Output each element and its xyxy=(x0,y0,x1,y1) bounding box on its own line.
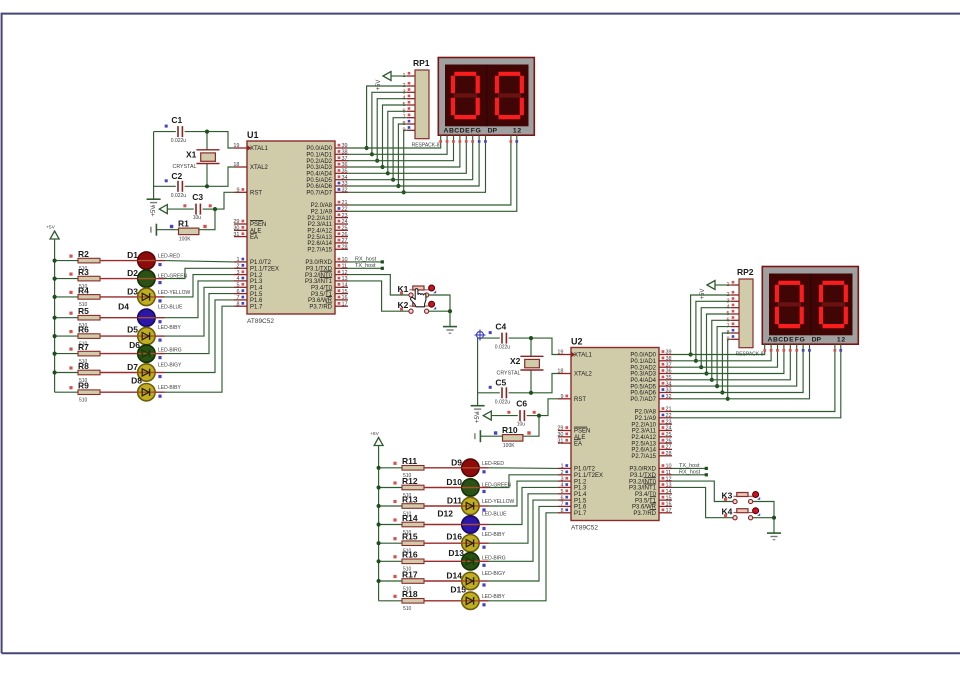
svg-text:P2.2/A10: P2.2/A10 xyxy=(307,216,332,222)
svg-text:D10: D10 xyxy=(446,477,462,487)
wire R13 to D11 xyxy=(424,505,462,507)
svg-text:P0.7/AD7: P0.7/AD7 xyxy=(630,397,656,403)
wire R7 to D6 xyxy=(100,353,138,355)
op-amp U1 AT89C52 xyxy=(247,141,335,314)
svg-text:K2: K2 xyxy=(398,300,409,310)
wire 7SEG1 segment DP to P0.7 xyxy=(348,135,486,192)
svg-text:D1: D1 xyxy=(127,250,138,260)
svg-text:A: A xyxy=(444,127,449,134)
svg-text:10: 10 xyxy=(666,464,672,470)
wire 7SEG2 segment DP to P0.7 xyxy=(672,344,810,399)
wire 7SEG2 segment G to P0.6 xyxy=(672,344,803,392)
wire RP1 pin7 to P0.5 xyxy=(393,118,407,180)
wire U2 XTAL top rail xyxy=(478,337,500,339)
svg-text:F: F xyxy=(795,336,799,343)
svg-text:U2: U2 xyxy=(571,337,583,347)
svg-text:D13: D13 xyxy=(448,548,464,558)
svg-text:D8: D8 xyxy=(131,376,142,386)
wire rail to R3 xyxy=(55,278,78,280)
svg-text:3: 3 xyxy=(560,476,563,482)
wire P3.0 net TX_host xyxy=(672,467,706,469)
wire D15 to P1.7 xyxy=(479,600,488,602)
svg-text:LED-BLUE: LED-BLUE xyxy=(482,512,507,518)
resistor R17 xyxy=(402,579,424,584)
resistor R16 xyxy=(402,559,424,564)
svg-text:P1.6: P1.6 xyxy=(574,505,587,511)
pin 24 U2 P2.3/A11 xyxy=(659,430,672,432)
svg-text:P3.0/RXD: P3.0/RXD xyxy=(629,467,656,473)
svg-text:XTAL1: XTAL1 xyxy=(574,353,593,359)
pin 14 U2 P3.4/T0 xyxy=(659,493,672,495)
wire D16 to P1.4 xyxy=(479,542,488,544)
svg-text:34: 34 xyxy=(342,175,348,181)
wire D10 to P1.1 xyxy=(479,487,488,489)
wire RP1 pin3 to P0.1 xyxy=(372,92,407,154)
svg-text:1: 1 xyxy=(837,336,841,343)
svg-text:P1.3: P1.3 xyxy=(574,486,587,492)
resistor pack RP2 RESPACK-8 xyxy=(739,279,753,348)
pin 11 U1 P3.1/TXD xyxy=(335,267,348,269)
pin 1 U1 P1.0/T2 xyxy=(234,261,247,263)
op-amp U2 AT89C52 xyxy=(571,348,659,521)
svg-text:D14: D14 xyxy=(446,571,462,581)
svg-text:P2.3/A11: P2.3/A11 xyxy=(308,222,333,228)
pin 6 RP2 xyxy=(731,319,739,321)
wire K3 K4 to ground xyxy=(753,502,774,534)
ground xyxy=(471,405,485,407)
svg-text:P0.0/AD0: P0.0/AD0 xyxy=(630,353,656,359)
pin 4 RP1 xyxy=(407,98,415,100)
svg-text:100K: 100K xyxy=(179,236,191,242)
pin 1 RP1 xyxy=(407,75,415,77)
svg-text:P1.5: P1.5 xyxy=(574,498,587,504)
pin 29 U1 PSEN xyxy=(234,223,247,225)
pin 1 RP2 xyxy=(731,284,739,286)
wire 7SEG2 segment B to P0.1 xyxy=(672,344,771,361)
svg-text:R7: R7 xyxy=(78,342,89,352)
svg-text:R3: R3 xyxy=(78,267,89,277)
wire rail to R11 xyxy=(379,467,402,469)
svg-text:R10: R10 xyxy=(502,425,518,435)
resistor R9 xyxy=(78,390,100,395)
pin 27 U2 P2.6/A14 xyxy=(659,448,672,450)
svg-text:P0.7/AD7: P0.7/AD7 xyxy=(306,191,332,197)
svg-text:18: 18 xyxy=(557,369,563,375)
svg-text:510: 510 xyxy=(403,606,412,612)
svg-text:TX_host: TX_host xyxy=(679,463,700,469)
pin 35 U1 P0.4/AD4 xyxy=(335,172,348,174)
svg-text:D2: D2 xyxy=(127,268,138,278)
svg-text:P2.1/A9: P2.1/A9 xyxy=(635,416,657,422)
resistor R1 xyxy=(179,228,199,235)
LED D10 LED-GREEN xyxy=(462,479,479,496)
svg-text:P3.0/RXD: P3.0/RXD xyxy=(305,260,332,266)
pin 10 U2 P3.0/RXD xyxy=(659,467,672,469)
pin 4 U1 P1.3 xyxy=(234,280,247,282)
svg-text:28: 28 xyxy=(342,245,348,251)
svg-text:P2.3/A11: P2.3/A11 xyxy=(632,429,657,435)
svg-text:30: 30 xyxy=(233,226,239,232)
svg-text:23: 23 xyxy=(342,213,348,219)
wire RP2 pin3 to P0.1 xyxy=(696,301,731,361)
svg-text:A: A xyxy=(768,336,773,343)
LED D6 LED-BIRG xyxy=(138,345,155,362)
svg-text:R18: R18 xyxy=(402,589,418,599)
wire RP2 pin2 to P0.0 xyxy=(691,295,731,355)
svg-text:P1.5: P1.5 xyxy=(250,292,263,298)
svg-text:P1.2: P1.2 xyxy=(250,273,263,279)
pin 39 U1 P0.0/AD0 xyxy=(335,147,348,149)
svg-text:K4: K4 xyxy=(722,507,733,517)
wire D9 to P1.0 xyxy=(479,467,488,469)
svg-text:R11: R11 xyxy=(402,456,417,466)
wire RP2 pin6 to P0.4 xyxy=(712,320,731,380)
svg-text:38: 38 xyxy=(666,356,672,362)
svg-text:P0.5/AD5: P0.5/AD5 xyxy=(306,178,332,184)
wire rail to R17 xyxy=(379,580,402,582)
svg-text:LED-BIBY: LED-BIBY xyxy=(482,532,505,538)
wire RP1 pin8 to P0.6 xyxy=(398,124,406,186)
LED D14 LED-BIGY xyxy=(462,572,479,589)
svg-text:P1.4: P1.4 xyxy=(250,286,263,292)
svg-text:D3: D3 xyxy=(127,286,138,296)
svg-text:D5: D5 xyxy=(127,325,138,335)
svg-text:0.022u: 0.022u xyxy=(495,399,511,405)
svg-text:10u: 10u xyxy=(193,215,202,221)
pin 3 RP2 xyxy=(731,300,739,302)
pin 39 U2 P0.0/AD0 xyxy=(659,354,672,356)
pin 6 RP1 xyxy=(407,110,415,112)
svg-text:EA: EA xyxy=(574,441,582,447)
pin 28 U1 P2.7/A15 xyxy=(335,248,348,250)
wire D6 to P1.5 xyxy=(155,353,164,355)
wire 7SEG2 segment A to P0.0 xyxy=(672,344,765,354)
svg-text:P1.2: P1.2 xyxy=(574,479,587,485)
wire D1 to P1.0 xyxy=(155,260,164,262)
svg-text:P2.2/A10: P2.2/A10 xyxy=(631,422,656,428)
wire rail to R16 xyxy=(379,560,402,562)
LED D5 LED-BIBY xyxy=(138,327,155,344)
wire rail to R18 xyxy=(379,600,402,602)
svg-text:35: 35 xyxy=(342,169,348,175)
wire RST to R10 xyxy=(523,416,539,437)
svg-text:8: 8 xyxy=(236,301,239,307)
svg-text:10: 10 xyxy=(342,257,348,263)
svg-text:P0.1/AD1: P0.1/AD1 xyxy=(306,153,332,159)
wire U1 left rail to ground xyxy=(153,132,155,200)
svg-text:22: 22 xyxy=(666,413,672,419)
wire rail to R7 xyxy=(55,353,78,355)
svg-text:RST: RST xyxy=(250,191,262,197)
wire U1 XTAL top rail xyxy=(154,131,176,133)
svg-text:TX_host: TX_host xyxy=(355,263,376,269)
svg-text:10u: 10u xyxy=(517,422,526,428)
svg-text:21: 21 xyxy=(342,200,348,206)
wire P3.2 to K3 xyxy=(672,481,733,501)
power +5V xyxy=(383,72,391,81)
svg-text:P2.5/A13: P2.5/A13 xyxy=(631,441,656,447)
svg-text:D11: D11 xyxy=(447,496,462,506)
wire D2 to P1.1 xyxy=(155,278,164,280)
svg-text:2: 2 xyxy=(236,264,239,270)
wire U2 crystal branches xyxy=(530,338,532,356)
pin 23 U2 P2.2/A10 xyxy=(659,423,672,425)
wire R5 to D4 xyxy=(100,317,138,319)
pin 9 U1 RST xyxy=(234,191,247,193)
svg-text:P0.1/AD1: P0.1/AD1 xyxy=(630,359,656,365)
power +5V xyxy=(50,231,59,239)
svg-text:11: 11 xyxy=(666,470,672,476)
svg-text:5: 5 xyxy=(560,489,563,495)
LED D15 LED-BIBY xyxy=(462,592,479,609)
svg-text:36: 36 xyxy=(342,162,348,168)
svg-text:LED-YELLOW: LED-YELLOW xyxy=(158,290,191,296)
resistor R2 xyxy=(78,258,100,263)
svg-text:P3.7/RD: P3.7/RD xyxy=(633,511,656,517)
wire U1 crystal branches xyxy=(206,132,208,150)
svg-text:D16: D16 xyxy=(446,532,462,542)
svg-text:LED-BIRG: LED-BIRG xyxy=(482,555,506,561)
svg-text:B: B xyxy=(449,127,454,134)
svg-text:+5V: +5V xyxy=(376,80,382,91)
pin 21 U1 P2.0/A8 xyxy=(335,204,348,206)
pin 34 U1 P0.5/AD5 xyxy=(335,179,348,181)
svg-text:13: 13 xyxy=(342,276,348,282)
display 7SEG1 two digit seven segment xyxy=(438,58,534,136)
svg-text:3: 3 xyxy=(236,270,239,276)
svg-text:R9: R9 xyxy=(78,381,89,391)
wire 7SEG2 segment F to P0.5 xyxy=(672,344,797,386)
svg-text:33: 33 xyxy=(666,388,672,394)
pin 18 U1 XTAL2 xyxy=(234,166,247,168)
wire R14 to D12 xyxy=(424,524,462,526)
svg-text:D4: D4 xyxy=(118,302,129,312)
node origin marker xyxy=(475,330,486,341)
svg-text:K1: K1 xyxy=(398,284,409,294)
svg-text:R14: R14 xyxy=(402,513,418,523)
pin 2 RP2 xyxy=(731,294,739,296)
wire C to RST xyxy=(203,208,215,210)
pin 29 U2 PSEN xyxy=(558,430,571,432)
svg-text:P3.3/INT1: P3.3/INT1 xyxy=(305,279,333,285)
svg-text:+5V: +5V xyxy=(700,289,706,300)
svg-text:C1: C1 xyxy=(171,115,182,125)
svg-text:R12: R12 xyxy=(402,476,418,486)
svg-text:C: C xyxy=(454,127,459,134)
wire D3 to P1.2 xyxy=(155,296,164,298)
svg-text:23: 23 xyxy=(666,419,672,425)
svg-text:19: 19 xyxy=(557,350,563,356)
svg-text:19: 19 xyxy=(233,143,239,149)
capacitor C1 xyxy=(177,126,179,137)
resistor R8 xyxy=(78,370,100,375)
ground xyxy=(443,326,457,328)
pin 28 U2 P2.7/A15 xyxy=(659,455,672,457)
svg-text:24: 24 xyxy=(666,426,672,432)
svg-text:510: 510 xyxy=(79,398,88,404)
svg-text:LED-BIBY: LED-BIBY xyxy=(158,385,181,391)
wire R1 to ground xyxy=(157,229,179,231)
pin 34 U2 P0.5/AD5 xyxy=(659,385,672,387)
capacitor C3 xyxy=(195,204,197,215)
svg-text:P1.3: P1.3 xyxy=(250,279,263,285)
pin 26 U2 P2.5/A13 xyxy=(659,442,672,444)
svg-text:P1.6: P1.6 xyxy=(250,298,263,304)
svg-text:X1: X1 xyxy=(186,150,197,160)
wire rail to R14 xyxy=(379,524,402,526)
wire D14 to P1.6 xyxy=(479,580,488,582)
wire P3.1 net RX_host xyxy=(672,474,706,476)
svg-text:29: 29 xyxy=(233,219,239,225)
svg-text:R4: R4 xyxy=(78,285,89,295)
wire RP1 pin4 to P0.2 xyxy=(377,99,407,161)
svg-text:39: 39 xyxy=(342,143,348,149)
svg-text:25: 25 xyxy=(342,226,348,232)
LED D11 LED-YELLOW xyxy=(462,497,479,514)
svg-text:RP2: RP2 xyxy=(737,267,754,277)
svg-text:G: G xyxy=(475,127,480,134)
svg-text:RX_host: RX_host xyxy=(355,256,377,262)
wire 7SEG2 segment C to P0.2 xyxy=(672,344,778,367)
pin 19 U1 XTAL1 xyxy=(234,147,247,149)
wire R12 to D10 xyxy=(424,487,462,489)
pin 16 U1 P3.6/WR xyxy=(335,299,348,301)
svg-text:R15: R15 xyxy=(402,532,418,542)
svg-text:8: 8 xyxy=(560,508,563,514)
LED D13 LED-BIRG xyxy=(462,553,479,570)
wire 7SEG2 digit1 to P2.0 xyxy=(672,344,835,411)
svg-text:X2: X2 xyxy=(510,356,521,366)
svg-text:P1.7: P1.7 xyxy=(574,511,587,517)
wire D13 to P1.5 xyxy=(479,560,488,562)
svg-text:30: 30 xyxy=(557,432,563,438)
svg-text:XTAL1: XTAL1 xyxy=(250,146,269,152)
pin 26 U1 P2.5/A13 xyxy=(335,236,348,238)
pin 8 RP2 xyxy=(731,332,739,334)
svg-text:1: 1 xyxy=(560,464,563,470)
wire 7SEG1 digit2 to P2.1 xyxy=(348,135,517,211)
pin 22 U2 P2.1/A9 xyxy=(659,417,672,419)
svg-text:15: 15 xyxy=(342,289,348,295)
svg-text:CRYSTAL: CRYSTAL xyxy=(173,164,197,170)
pin 23 U1 P2.2/A10 xyxy=(335,217,348,219)
svg-text:12: 12 xyxy=(342,270,348,276)
svg-text:2: 2 xyxy=(517,127,521,134)
svg-text:35: 35 xyxy=(666,375,672,381)
svg-text:F: F xyxy=(471,127,475,134)
svg-text:P3.7/RD: P3.7/RD xyxy=(309,304,332,310)
svg-text:LED-RED: LED-RED xyxy=(482,461,504,467)
svg-text:C: C xyxy=(778,336,783,343)
svg-text:LED-BIBY: LED-BIBY xyxy=(158,325,181,331)
svg-text:4: 4 xyxy=(560,483,563,489)
wire P3.2 to K1 xyxy=(348,275,409,295)
svg-text:E: E xyxy=(789,336,794,343)
svg-text:17: 17 xyxy=(342,301,348,307)
svg-text:0.022u: 0.022u xyxy=(495,345,511,351)
pin 7 RP1 xyxy=(407,117,415,119)
pin 9 U2 RST xyxy=(558,398,571,400)
pin 15 U2 P3.5/T1 xyxy=(659,499,672,501)
svg-text:D15: D15 xyxy=(450,584,466,594)
pin 17 U1 P3.7/RD xyxy=(335,305,348,307)
wire rail to R2 xyxy=(55,260,78,262)
svg-text:R16: R16 xyxy=(402,550,418,560)
svg-text:22: 22 xyxy=(342,207,348,213)
svg-text:+5V: +5V xyxy=(370,431,379,437)
LED D4 LED-BLUE xyxy=(138,309,155,326)
power +5V xyxy=(374,438,383,446)
svg-text:LED-RED: LED-RED xyxy=(158,254,180,260)
svg-text:B: B xyxy=(773,336,778,343)
resistor R18 xyxy=(402,599,424,604)
wire P3.3 to K2 xyxy=(348,281,409,311)
svg-text:9: 9 xyxy=(560,394,563,400)
wire RP1 pin9 to P0.7 xyxy=(404,130,407,192)
pin 19 U2 XTAL1 xyxy=(558,354,571,356)
LED D16 LED-BIBY xyxy=(462,535,479,552)
svg-text:27: 27 xyxy=(666,445,672,451)
svg-text:P1.0/T2: P1.0/T2 xyxy=(250,260,272,266)
pin 12 U2 P3.2/INT0 xyxy=(659,480,672,482)
display 7SEG2 two digit seven segment xyxy=(762,267,858,345)
resistor R11 xyxy=(402,466,424,471)
resistor R15 xyxy=(402,541,424,546)
svg-text:9: 9 xyxy=(236,188,239,194)
svg-text:P0.6/AD6: P0.6/AD6 xyxy=(630,391,656,397)
pin 10 U1 P3.0/RXD xyxy=(335,261,348,263)
svg-text:5: 5 xyxy=(236,283,239,289)
wire U1 LED rail xyxy=(54,239,56,392)
svg-text:RP1: RP1 xyxy=(413,58,430,68)
svg-text:XTAL2: XTAL2 xyxy=(250,165,269,171)
pin 13 U1 P3.3/INT1 xyxy=(335,280,348,282)
pin 24 U1 P2.3/A11 xyxy=(335,223,348,225)
pin 37 U1 P0.2/AD2 xyxy=(335,160,348,162)
pin 38 U2 P0.1/AD1 xyxy=(659,360,672,362)
svg-text:LED-BIRG: LED-BIRG xyxy=(158,348,182,354)
svg-text:LED-BIGY: LED-BIGY xyxy=(482,571,506,577)
wire K1 K2 to ground xyxy=(429,295,450,327)
power +5V xyxy=(707,281,715,290)
resistor pack RP1 RESPACK-8 xyxy=(415,70,429,139)
wire 7SEG1 digit1 to P2.0 xyxy=(348,135,511,205)
wire +5V to C3 xyxy=(167,208,194,210)
svg-text:0.022u: 0.022u xyxy=(171,138,187,144)
svg-text:7: 7 xyxy=(236,295,239,301)
ground xyxy=(147,198,161,200)
pin 32 U2 P0.7/AD7 xyxy=(659,398,672,400)
svg-text:P2.4/A12: P2.4/A12 xyxy=(631,435,656,441)
svg-text:32: 32 xyxy=(666,394,672,400)
svg-text:P0.2/AD2: P0.2/AD2 xyxy=(306,159,332,165)
pin 36 U2 P0.3/AD3 xyxy=(659,373,672,375)
svg-text:D9: D9 xyxy=(451,457,462,467)
svg-text:31: 31 xyxy=(557,438,563,444)
pin 1 U2 P1.0/T2 xyxy=(558,467,571,469)
svg-text:P2.7/A15: P2.7/A15 xyxy=(307,248,332,254)
wire R9 to D8 xyxy=(100,391,138,393)
svg-text:LED-BIBY: LED-BIBY xyxy=(482,594,505,600)
pin 38 U1 P0.1/AD1 xyxy=(335,153,348,155)
svg-text:+5V: +5V xyxy=(46,225,55,231)
pin 25 U1 P2.4/A12 xyxy=(335,229,348,231)
svg-text:4: 4 xyxy=(236,276,239,282)
wire R2 to D1 xyxy=(100,260,138,262)
wire RP1 pin5 to P0.3 xyxy=(383,105,407,167)
svg-text:AT89C52: AT89C52 xyxy=(571,525,598,532)
wire RST to R1 xyxy=(199,209,215,230)
